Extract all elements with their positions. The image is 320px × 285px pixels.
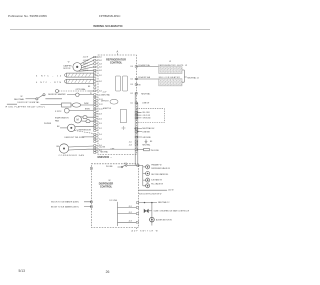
svg-text:J1-5A OR 10A: J1-5A OR 10A <box>138 76 151 79</box>
svg-text:SECOND WATER BL: SECOND WATER BL <box>151 173 168 176</box>
svg-text:DISPENSER VALVE W: DISPENSER VALVE W <box>151 167 170 170</box>
svg-text:DEFROST HEATER: DEFROST HEATER <box>48 93 66 96</box>
svg-text:A: A <box>117 50 119 54</box>
svg-text:CUBE / CRUSHED ICE GATE CONTRO: CUBE / CRUSHED ICE GATE CONTROL W <box>154 210 190 213</box>
svg-text:J3-2: J3-2 <box>99 81 102 83</box>
svg-text:M: M <box>77 118 79 122</box>
svg-text:BK: BK <box>139 84 142 86</box>
svg-text:BK DR TO ICE MAKER (UNIT): BK DR TO ICE MAKER (UNIT) <box>51 205 79 208</box>
svg-text:BK: BK <box>57 126 60 128</box>
svg-text:ICE DOOR FILL MOTOR W: ICE DOOR FILL MOTOR W <box>139 194 162 196</box>
svg-text:W1 DR TO ICE MAKER (UNIT): W1 DR TO ICE MAKER (UNIT) <box>51 201 79 204</box>
svg-text:J2-2: J2-2 <box>129 212 132 214</box>
svg-text:MOTOR: MOTOR <box>63 68 71 70</box>
svg-text:J1-9: J1-9 <box>130 66 133 68</box>
svg-text:J3-1: J3-1 <box>99 75 102 77</box>
svg-text:4 NTC - RTN: 4 NTC - RTN <box>36 82 61 84</box>
svg-text:LINE W: LINE W <box>142 103 149 105</box>
svg-text:W: W <box>169 61 171 63</box>
svg-text:J2-12: J2-12 <box>99 104 103 106</box>
svg-text:J2-6: J2-6 <box>99 118 102 120</box>
svg-text:FPHB2K8LMSC: FPHB2K8LMSC <box>99 14 121 18</box>
svg-text:J4-4 Y: J4-4 Y <box>83 67 89 69</box>
svg-text:WIRING SCHEMATIC: WIRING SCHEMATIC <box>93 24 123 28</box>
svg-text:CONTROL: CONTROL <box>110 62 123 65</box>
svg-text:J2-16: J2-16 <box>99 94 103 96</box>
svg-text:W LINE: W LINE <box>106 166 113 168</box>
svg-text:NEUTRAL: NEUTRAL <box>100 150 108 153</box>
svg-text:J2-1: J2-1 <box>129 206 132 208</box>
svg-text:J4-5 W: J4-5 W <box>168 190 174 192</box>
svg-text:J1-2: J1-2 <box>130 93 133 95</box>
svg-text:NEUTRAL: NEUTRAL <box>142 144 150 147</box>
svg-text:W: W <box>21 96 23 98</box>
svg-text:W: W <box>185 65 187 67</box>
svg-text:J4-1: J4-1 <box>129 142 132 144</box>
svg-text:LINE: LINE <box>110 149 115 151</box>
svg-text:W: W <box>109 180 111 182</box>
svg-text:J1-5: J1-5 <box>130 79 133 81</box>
svg-text:J2-3: J2-3 <box>129 221 132 223</box>
svg-text:J2-10: J2-10 <box>99 109 103 111</box>
svg-text:J2-8: J2-8 <box>99 114 102 116</box>
svg-text:NEUTRAL: NEUTRAL <box>14 98 25 101</box>
svg-text:ADP SWITCH W: ADP SWITCH W <box>132 229 158 232</box>
svg-text:26: 26 <box>106 270 110 274</box>
svg-text:J4-1 W: J4-1 W <box>83 57 89 59</box>
svg-text:REFRIGERATOR LIGHTS: REFRIGERATOR LIGHTS <box>158 64 184 67</box>
svg-text:PRIMARY W: PRIMARY W <box>151 164 162 167</box>
svg-text:5/13: 5/13 <box>19 269 26 273</box>
svg-text:W W/BK: W W/BK <box>44 123 52 125</box>
svg-text:J4-5 G: J4-5 G <box>83 70 89 72</box>
svg-text:W: W <box>68 62 70 64</box>
svg-text:LINE BR: LINE BR <box>142 131 150 133</box>
svg-text:FAN: FAN <box>55 119 59 122</box>
svg-text:→: → <box>110 156 113 159</box>
svg-text:J4-2 BK: J4-2 BK <box>99 146 106 148</box>
svg-text:J2-14: J2-14 <box>99 99 103 101</box>
svg-text:J5-2: J5-2 <box>99 139 102 141</box>
svg-text:W/BK: W/BK <box>84 103 89 105</box>
svg-text:J4-3: J4-3 <box>99 63 102 65</box>
svg-text:CONTROL: CONTROL <box>100 186 113 189</box>
svg-text:BR/W: BR/W <box>85 109 90 111</box>
svg-text:J4-2: J4-2 <box>99 60 102 62</box>
svg-text:ADAPTIVE: ADAPTIVE <box>103 107 111 110</box>
svg-text:OR-2 OR: OR-2 OR <box>143 115 151 117</box>
svg-text:+12V: +12V <box>103 92 108 94</box>
svg-text:NEUTRAL: NEUTRAL <box>103 93 111 96</box>
svg-text:IF DBL FLAPPER RELAY CHK(*): IF DBL FLAPPER RELAY CHK(*) <box>5 105 45 108</box>
svg-text:J5-4: J5-4 <box>99 134 102 136</box>
svg-text:Publication No. 5995513056: Publication No. 5995513056 <box>8 14 47 18</box>
svg-text:6 NTC - 14: 6 NTC - 14 <box>36 76 62 78</box>
svg-text:J4-3 R: J4-3 R <box>83 63 89 65</box>
svg-text:J4-5: J4-5 <box>99 70 102 72</box>
svg-text:DEFROST BIMETAL: DEFROST BIMETAL <box>18 101 41 104</box>
svg-text:NEUTRAL 12: NEUTRAL 12 <box>158 201 169 204</box>
svg-text:GROUND: GROUND <box>142 137 151 139</box>
svg-text:J2-2: J2-2 <box>99 128 102 130</box>
svg-text:CONDENSER FAN: CONDENSER FAN <box>59 154 85 157</box>
svg-text:J3-4: J3-4 <box>99 91 102 93</box>
svg-text:COMPRESSOR: COMPRESSOR <box>77 129 92 131</box>
svg-text:AUGER MOTOR W: AUGER MOTOR W <box>156 219 172 222</box>
svg-text:DC LINE: DC LINE <box>110 200 118 202</box>
svg-text:ICE RAKE W: ICE RAKE W <box>151 179 162 182</box>
svg-text:EVAPORATOR: EVAPORATOR <box>55 117 69 120</box>
svg-text:BK: BK <box>88 86 91 88</box>
svg-text:DEFROST TML FUSE: DEFROST TML FUSE <box>65 137 86 139</box>
svg-text:BU-1 BU: BU-1 BU <box>143 112 151 114</box>
svg-text:BK: BK <box>150 141 153 143</box>
svg-text:NEUTRAL BU: NEUTRAL BU <box>142 127 155 130</box>
svg-text:GROUND: GROUND <box>143 118 152 120</box>
svg-text:TML FUSE: TML FUSE <box>151 150 160 152</box>
svg-text:NEUTRAL 12: NEUTRAL 12 <box>187 76 198 79</box>
svg-text:J4-2 BK: J4-2 BK <box>83 60 90 62</box>
svg-text:J1-1: J1-1 <box>130 103 133 105</box>
svg-text:FILL VALVE W: FILL VALVE W <box>151 182 163 185</box>
svg-text:J1-3: J1-3 <box>130 84 133 86</box>
svg-text:J4-3: J4-3 <box>129 145 132 147</box>
svg-text:J4-4: J4-4 <box>99 67 102 69</box>
svg-text:F NTC: F NTC <box>55 111 62 113</box>
svg-text:J2-4: J2-4 <box>99 123 102 125</box>
svg-text:NEUTRAL: NEUTRAL <box>141 92 150 95</box>
svg-text:EMF2000: EMF2000 <box>98 155 110 159</box>
svg-text:J4-1: J4-1 <box>99 57 102 59</box>
